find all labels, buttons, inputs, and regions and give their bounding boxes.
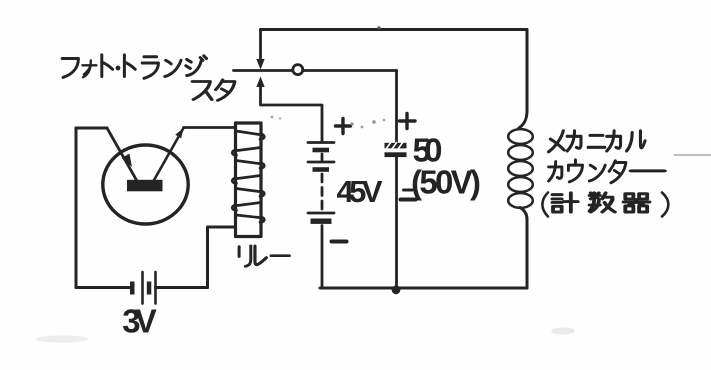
scan artifact: faint line right: [674, 154, 711, 156]
plus sign of C1: [400, 114, 416, 129]
phototransistor Q1 emitter lead: [107, 128, 137, 181]
plus sign of B2: [336, 119, 351, 134]
counter coil L1 (mechanical counter solenoid): [508, 129, 533, 208]
phototransistor Q1 collector lead: [154, 128, 184, 181]
svg-text:3V: 3V: [122, 303, 157, 340]
scan artifact: mark below counter: [551, 328, 575, 335]
relay RY1 coil body: [236, 123, 262, 237]
svg-text:45V: 45V: [337, 174, 383, 209]
capacitor C1 plates: [385, 142, 407, 157]
label relay リレー: [239, 246, 251, 267]
scan artifact: bump on top bus: [377, 26, 380, 29]
battery B2 45V: [308, 143, 334, 289]
battery B1 3V: [76, 272, 208, 304]
node: junction dot on bottom bus: [392, 285, 401, 294]
label phototransistor line1: [62, 59, 78, 78]
minus sign of B2: [332, 240, 347, 244]
capacitor C1 wire lower: [395, 157, 398, 288]
wire: right vertical to counter coil: [519, 30, 527, 129]
wire: relay bottom to 3V battery: [208, 227, 236, 288]
contact pivot circle: [293, 65, 303, 75]
minus sign of C1: [401, 198, 416, 202]
wire: left top corner to phototransistor: [76, 127, 107, 130]
wire: bottom horizontal bus: [320, 287, 527, 290]
label phototransistor line2 スタ: [192, 81, 211, 99]
relay RY1 windings: [232, 131, 264, 222]
scan artifact: faint tick near relay top: [271, 116, 274, 119]
wire: right vertical below coil: [520, 208, 527, 289]
wire: top horizontal bus: [261, 28, 528, 31]
svg-text:(50V): (50V): [411, 164, 481, 201]
label counter メカニカル: [549, 131, 565, 152]
emitter arrowhead: [122, 154, 132, 167]
phototransistor Q1 envelope circle: [103, 145, 188, 224]
up arrow from battery branch to contact: [256, 77, 264, 88]
label counter カウンター: [549, 162, 562, 181]
scan artifact: bottom-left smudge: [36, 335, 88, 342]
wire: collector to relay coil: [184, 126, 236, 129]
phototransistor Q1 base bar: [127, 180, 163, 192]
wire: left loop vertical: [75, 128, 78, 288]
scan artifact: faint dots near capacitor plus: [350, 122, 353, 125]
wire: drop from top bus to contact (down arrow): [259, 30, 262, 60]
collector arrowhead: [175, 128, 183, 138]
label (計数器): [542, 193, 548, 217]
relay contact line (switch): [234, 69, 397, 72]
underscore mark: [404, 189, 413, 192]
capacitor C1 50uF wire upper: [395, 71, 398, 143]
